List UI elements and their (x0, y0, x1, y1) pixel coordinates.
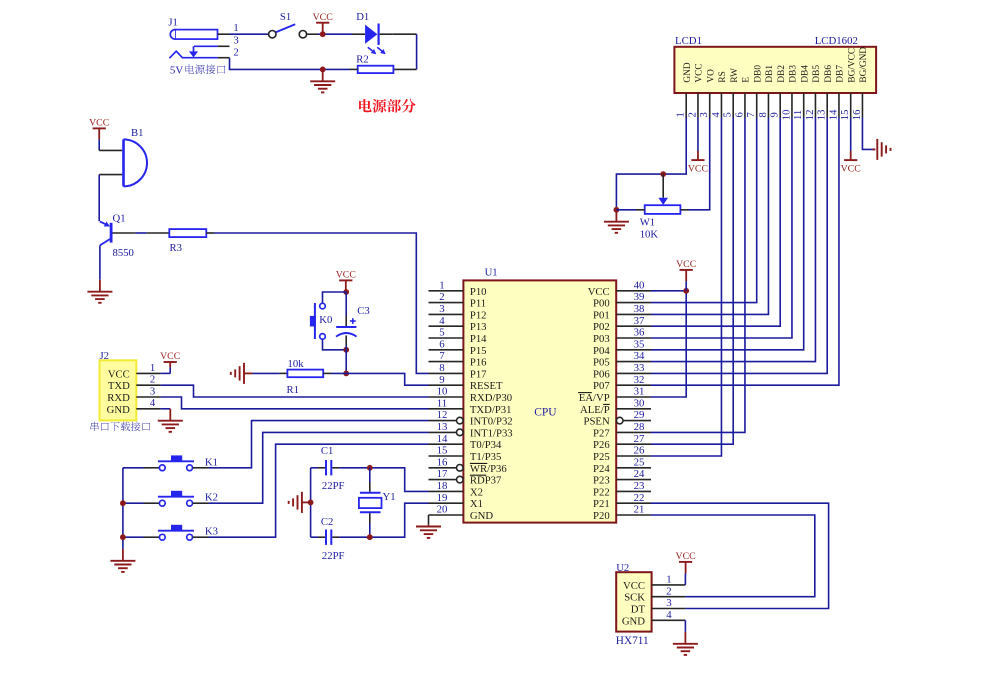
svg-text:B1: B1 (131, 127, 143, 139)
svg-text:U1: U1 (485, 266, 498, 278)
svg-text:2: 2 (150, 374, 155, 386)
svg-text:D1: D1 (356, 11, 369, 23)
svg-text:T0/P34: T0/P34 (470, 439, 502, 451)
svg-text:VCC: VCC (108, 368, 130, 380)
svg-text:26: 26 (634, 445, 645, 457)
svg-text:P24: P24 (593, 463, 610, 475)
svg-text:32: 32 (634, 374, 645, 386)
svg-text:1: 1 (150, 362, 155, 374)
svg-text:VCC: VCC (841, 163, 861, 174)
svg-text:S1: S1 (280, 11, 291, 23)
svg-text:24: 24 (634, 468, 645, 480)
svg-text:29: 29 (634, 409, 645, 421)
svg-text:P23: P23 (593, 475, 610, 487)
svg-text:INT1/P33: INT1/P33 (470, 427, 513, 439)
svg-text:38: 38 (634, 303, 645, 315)
svg-text:31: 31 (634, 386, 645, 398)
svg-text:15: 15 (437, 445, 448, 457)
svg-text:VCC: VCC (623, 580, 645, 592)
svg-text:VCC: VCC (688, 163, 708, 174)
svg-text:14: 14 (437, 433, 448, 445)
svg-text:8: 8 (758, 112, 769, 117)
svg-text:C1: C1 (321, 445, 333, 457)
svg-text:SCK: SCK (624, 592, 645, 604)
svg-text:P12: P12 (470, 309, 487, 321)
svg-text:RW: RW (730, 68, 740, 83)
svg-text:K3: K3 (205, 526, 218, 538)
svg-text:P11: P11 (470, 298, 486, 310)
svg-text:VCC: VCC (676, 259, 696, 270)
svg-text:21: 21 (634, 504, 645, 516)
svg-text:RXD: RXD (107, 392, 130, 404)
svg-text:VCC: VCC (336, 270, 356, 281)
svg-text:RS: RS (718, 71, 728, 82)
svg-text:34: 34 (634, 350, 645, 362)
svg-text:22PF: 22PF (322, 480, 345, 492)
svg-text:25: 25 (634, 456, 645, 468)
svg-text:4: 4 (439, 315, 445, 327)
svg-text:K0: K0 (319, 314, 332, 326)
svg-text:17: 17 (437, 468, 448, 480)
svg-text:10: 10 (781, 110, 792, 121)
svg-text:3: 3 (439, 303, 444, 315)
svg-text:DB3: DB3 (789, 65, 799, 83)
svg-text:10k: 10k (288, 358, 305, 370)
svg-text:P15: P15 (470, 345, 487, 357)
svg-text:CPU: CPU (534, 406, 557, 418)
svg-text:P02: P02 (593, 321, 610, 333)
svg-text:P03: P03 (593, 333, 610, 345)
svg-text:3: 3 (233, 35, 238, 47)
svg-text:VCC: VCC (313, 12, 333, 23)
svg-text:DB4: DB4 (800, 65, 810, 83)
svg-text:10: 10 (437, 386, 448, 398)
svg-text:P16: P16 (470, 357, 487, 369)
svg-text:X2: X2 (470, 486, 483, 498)
svg-text:12: 12 (437, 409, 448, 421)
svg-text:VCC: VCC (588, 286, 610, 298)
svg-text:Q1: Q1 (113, 212, 126, 224)
svg-text:GND: GND (622, 615, 645, 627)
svg-text:23: 23 (634, 480, 645, 492)
svg-text:14: 14 (828, 109, 839, 120)
svg-text:GND: GND (107, 404, 130, 416)
svg-text:DB5: DB5 (812, 65, 822, 83)
svg-text:5: 5 (723, 112, 734, 117)
svg-text:10K: 10K (640, 228, 659, 240)
svg-text:RESET: RESET (470, 380, 503, 392)
svg-text:U2: U2 (616, 562, 629, 574)
svg-text:VCC: VCC (695, 63, 705, 82)
svg-text:22PF: 22PF (322, 550, 345, 562)
svg-text:30: 30 (634, 397, 645, 409)
svg-text:1: 1 (233, 22, 238, 34)
svg-text:DT: DT (631, 604, 646, 616)
svg-text:P05: P05 (593, 357, 610, 369)
svg-text:5: 5 (439, 327, 444, 339)
svg-text:16: 16 (852, 110, 863, 121)
svg-text:6: 6 (439, 338, 445, 350)
svg-text:RXD/P30: RXD/P30 (470, 392, 512, 404)
svg-text:8550: 8550 (113, 247, 134, 259)
svg-text:DB1: DB1 (765, 65, 775, 83)
svg-text:R3: R3 (170, 242, 182, 254)
svg-text:33: 33 (634, 362, 645, 374)
svg-text:36: 36 (634, 327, 645, 339)
svg-text:DB2: DB2 (777, 65, 787, 83)
svg-text:P01: P01 (593, 309, 610, 321)
svg-text:19: 19 (437, 492, 448, 504)
svg-text:EA/VP: EA/VP (579, 392, 610, 404)
svg-text:K2: K2 (205, 492, 218, 504)
svg-text:DB7: DB7 (836, 65, 846, 83)
svg-text:9: 9 (439, 374, 444, 386)
svg-text:Y1: Y1 (383, 491, 396, 503)
svg-text:T1/P35: T1/P35 (470, 451, 501, 463)
svg-text:P07: P07 (593, 380, 610, 392)
svg-text:TXD/P31: TXD/P31 (470, 404, 512, 416)
svg-text:GND: GND (683, 62, 693, 82)
svg-text:J2: J2 (100, 350, 110, 362)
svg-text:E: E (742, 77, 752, 83)
svg-text:22: 22 (634, 492, 645, 504)
svg-text:35: 35 (634, 338, 645, 350)
svg-text:P25: P25 (593, 451, 610, 463)
svg-text:1: 1 (676, 112, 687, 117)
svg-text:3: 3 (666, 597, 671, 609)
svg-text:WR/P36: WR/P36 (470, 463, 507, 475)
svg-text:39: 39 (634, 291, 645, 303)
svg-text:13: 13 (437, 421, 448, 433)
svg-text:7: 7 (439, 350, 445, 362)
svg-text:K1: K1 (205, 456, 218, 468)
svg-text:RDP37: RDP37 (470, 475, 502, 487)
svg-text:13: 13 (817, 110, 828, 121)
svg-text:28: 28 (634, 421, 645, 433)
svg-text:1: 1 (666, 574, 671, 586)
svg-text:11: 11 (793, 110, 804, 120)
svg-text:7: 7 (746, 112, 757, 117)
svg-text:2: 2 (439, 291, 444, 303)
svg-text:40: 40 (634, 279, 645, 291)
svg-text:9: 9 (770, 112, 781, 117)
svg-text:VCC: VCC (676, 551, 696, 562)
svg-text:P27: P27 (593, 427, 610, 439)
svg-text:20: 20 (437, 504, 448, 516)
svg-text:18: 18 (437, 480, 448, 492)
svg-text:P20: P20 (593, 510, 610, 522)
svg-text:P26: P26 (593, 439, 610, 451)
svg-text:BG/GND: BG/GND (859, 47, 869, 83)
svg-text:6: 6 (734, 112, 745, 117)
svg-text:ALE/P: ALE/P (580, 404, 610, 416)
svg-text:BG/VCC: BG/VCC (847, 48, 857, 83)
svg-text:3: 3 (150, 385, 155, 397)
svg-text:R1: R1 (287, 384, 299, 396)
svg-text:4: 4 (666, 609, 672, 621)
svg-text:X1: X1 (470, 498, 483, 510)
svg-text:2: 2 (687, 112, 698, 117)
svg-text:12: 12 (805, 110, 816, 121)
svg-text:P13: P13 (470, 321, 487, 333)
svg-text:VCC: VCC (160, 351, 180, 362)
svg-text:C3: C3 (357, 305, 369, 317)
svg-text:P17: P17 (470, 368, 487, 380)
svg-text:16: 16 (437, 456, 448, 468)
svg-text:P10: P10 (470, 286, 487, 298)
svg-text:J1: J1 (168, 17, 178, 29)
svg-text:P21: P21 (593, 498, 610, 510)
svg-text:8: 8 (439, 362, 444, 374)
svg-text:LCD1: LCD1 (675, 35, 702, 47)
svg-text:LCD1602: LCD1602 (815, 35, 858, 47)
svg-text:TXD: TXD (108, 380, 130, 392)
svg-text:P14: P14 (470, 333, 487, 345)
svg-text:INT0/P32: INT0/P32 (470, 416, 513, 428)
svg-text:VO: VO (706, 69, 716, 83)
svg-text:4: 4 (150, 397, 156, 409)
svg-text:P00: P00 (593, 298, 610, 310)
svg-text:VCC: VCC (89, 118, 109, 129)
svg-text:R2: R2 (356, 53, 368, 65)
svg-text:37: 37 (634, 315, 645, 327)
svg-text:5V: 5V (170, 64, 183, 76)
svg-text:15: 15 (840, 110, 851, 121)
svg-text:3: 3 (699, 112, 710, 117)
svg-text:C2: C2 (321, 516, 333, 528)
svg-text:P04: P04 (593, 345, 610, 357)
svg-text:HX711: HX711 (616, 635, 649, 647)
svg-text:4: 4 (711, 112, 722, 118)
svg-text:GND: GND (470, 510, 493, 522)
svg-text:P22: P22 (593, 486, 610, 498)
svg-text:PSEN: PSEN (584, 416, 610, 428)
svg-text:W1: W1 (640, 216, 655, 228)
svg-text:2: 2 (666, 585, 671, 597)
svg-text:2: 2 (233, 47, 238, 59)
svg-text:1: 1 (439, 279, 444, 291)
svg-text:11: 11 (437, 397, 447, 409)
svg-text:P06: P06 (593, 368, 610, 380)
svg-text:DB0: DB0 (753, 65, 763, 83)
svg-text:27: 27 (634, 433, 645, 445)
svg-text:DB6: DB6 (824, 65, 834, 83)
